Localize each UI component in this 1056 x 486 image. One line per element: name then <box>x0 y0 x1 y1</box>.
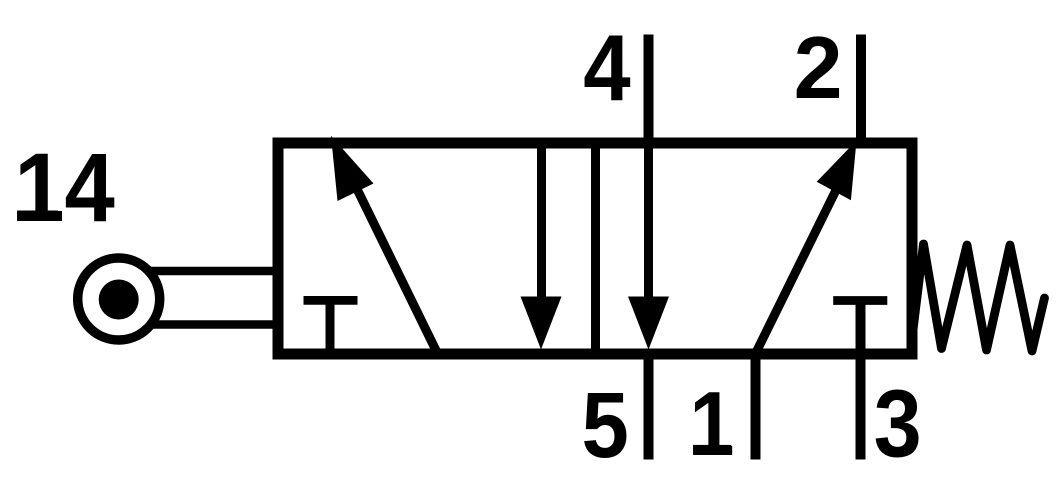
actuator plunger shaft (top line) <box>150 267 278 275</box>
svg-text:14: 14 <box>14 133 115 242</box>
label 1 <box>690 373 735 475</box>
label 14 (pilot/actuator port) <box>14 133 115 242</box>
blocked port 3 symbol (right position T) <box>833 301 887 354</box>
wire port 5 <box>644 354 654 460</box>
svg-text:1: 1 <box>690 373 735 475</box>
wire port 2 <box>856 35 866 144</box>
valve body V1 (two-position 5/2 envelope) <box>278 143 912 354</box>
arrowhead up-left (left position) <box>331 136 374 201</box>
position divider <box>591 143 600 354</box>
svg-text:4: 4 <box>583 16 631 121</box>
flow path 1->4 (left position) diagonal arrow <box>357 189 438 354</box>
arrowhead down (right position) <box>628 297 669 350</box>
arrowhead up-right (right position) <box>817 141 857 201</box>
svg-text:3: 3 <box>874 370 922 477</box>
wire port 1 <box>751 354 761 460</box>
actuator roller (inner dot) <box>99 280 139 320</box>
wire port 4 <box>644 35 654 144</box>
flow path 2->3 (left position) vertical arrow shaft <box>537 143 546 310</box>
svg-text:5: 5 <box>582 373 629 477</box>
actuator roller (outer circle) <box>78 258 160 340</box>
flow path 4->5 (right position) vertical arrow shaft <box>644 143 653 310</box>
wire port 3 <box>856 354 866 460</box>
blocked port 5 symbol (left position T) <box>304 300 358 353</box>
return spring <box>913 244 1045 351</box>
actuator plunger shaft (bottom line) <box>150 320 278 328</box>
svg-text:2: 2 <box>794 18 843 117</box>
arrowhead down (left position) <box>521 297 562 350</box>
flow path 1->2 (right position) diagonal arrow <box>756 184 840 354</box>
